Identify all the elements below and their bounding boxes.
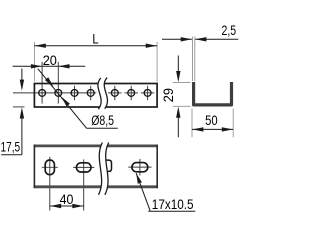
wire: break line view1 left [98, 78, 101, 109]
wire: slot 2 centerline horizontal [73, 166, 94, 168]
component: slot 3 longitudinal (17x10.5) [132, 163, 148, 172]
svg-text:17x10.5: 17x10.5 [152, 197, 194, 212]
wire: slot 3 centerline vertical [139, 159, 141, 176]
wire: 29 dimension line upper [177, 56, 179, 75]
component: strut channel bottom view left edge [33, 145, 35, 189]
wire: 17,5 dimension line lower shaft [21, 114, 23, 154]
wire: L dimension extension line left [33, 42, 35, 82]
component: strut channel bottom view right edge [156, 145, 158, 189]
wire: slot 1 centerline horizontal [42, 166, 58, 168]
component: channel cross-section profile [194, 82, 232, 105]
wire: break line view1 right [104, 78, 107, 109]
component: round hole 5 (diam 8.5) [111, 90, 118, 97]
wire: break line bottom view right [105, 143, 109, 195]
wire: 2,5 dimension line right part [195, 38, 238, 40]
wire: 17,5 extension line bottom [13, 106, 25, 108]
wire: 29 extension line top [173, 81, 191, 83]
svg-text:2,5: 2,5 [222, 23, 237, 38]
wire: hole centerline tick at x=74.5 [74, 86, 76, 100]
wire: L dimension extension line right [156, 42, 158, 82]
wire: 29 dimension line lower [177, 114, 179, 137]
wire: 40 dimension line [50, 205, 84, 207]
wire: break gap view1 [98, 78, 108, 110]
wire: 50 extension line left [191, 109, 193, 138]
component: round hole 2 (diam 8.5) [55, 90, 62, 97]
wire: 20 dimension line [13, 65, 86, 67]
wire: 50 extension line right [232, 109, 234, 138]
wire: slot 1 centerline vertical [49, 157, 51, 211]
component: slot 1 transverse (17x10.5) [45, 160, 54, 175]
component: strut channel side view outline [34, 84, 157, 108]
wire: break gap bottom view [99, 143, 109, 195]
svg-text:40: 40 [60, 192, 74, 207]
svg-text:17,5: 17,5 [1, 139, 21, 154]
component: round hole 6 (diam 8.5) [128, 90, 135, 97]
wire: slot 3 centerline horizontal [128, 166, 151, 168]
wire: leader line for hole diameter [38, 69, 87, 129]
component: strut channel bottom view bottom edge [34, 185, 158, 188]
wire: hole 1 centerline vertical [41, 62, 43, 104]
wire: slot 2 centerline vertical [83, 159, 85, 210]
wire: hole 2 centerline vertical [57, 62, 59, 104]
wire: L dimension line [34, 45, 157, 47]
svg-text:Ø8,5: Ø8,5 [91, 113, 114, 128]
component: round hole 3 (diam 8.5) [71, 90, 78, 97]
wire: 2,5 dimension line left part [162, 38, 192, 40]
wire: hole centerline cross at x=147.6 [147, 86, 149, 100]
wire: hole centerline cross at x=131.2 [130, 86, 132, 100]
wire: 29 extension line bottom [173, 105, 191, 107]
component: round hole 1 (diam 8.5) [39, 90, 46, 97]
wire: 50 dimension line [192, 128, 233, 130]
svg-text:29: 29 [161, 88, 176, 102]
wire: extension lines of wall thickness (gray) [192, 37, 194, 81]
component: round hole 7 (diam 8.5) [144, 90, 151, 97]
wire: break line bottom view left [99, 143, 103, 195]
wire: underline of slot size label [148, 210, 195, 212]
component: round hole 4 (diam 8.5) [87, 90, 94, 97]
component: partial slot at break [104, 160, 111, 171]
svg-text:50: 50 [205, 113, 218, 128]
wire: leader line for slot size [136, 173, 150, 211]
wire: hole centerline cross at x=114.8 [114, 86, 116, 100]
component: slot 2 longitudinal (17x10.5) [76, 163, 91, 172]
wire: hole axis line left portion [13, 92, 96, 94]
svg-text:L: L [92, 32, 98, 47]
wire: hole centerline tick at x=90.7 [90, 86, 92, 100]
wire: 17,5 leader tail [1, 154, 22, 156]
component: strut channel bottom view top edge [34, 144, 158, 147]
wire: 17,5 dimension line upper shaft [21, 69, 23, 84]
svg-text:20: 20 [43, 53, 57, 68]
wire: underline of hole diameter label [86, 127, 118, 129]
